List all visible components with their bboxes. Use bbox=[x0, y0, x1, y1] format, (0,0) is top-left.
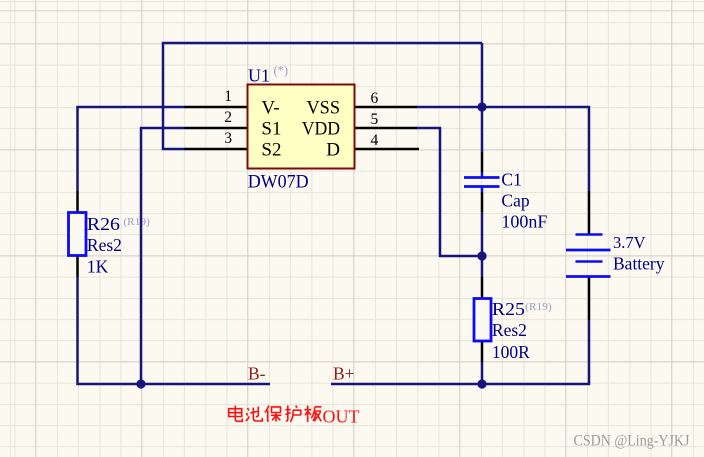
red title text OUT bbox=[323, 407, 360, 427]
svg-text:VDD: VDD bbox=[302, 119, 340, 140]
value label 3.7V bbox=[613, 233, 646, 252]
C1 bottom pin stub bbox=[481, 192, 484, 212]
value label Res2 of R26 bbox=[87, 235, 122, 255]
svg-text:1: 1 bbox=[224, 88, 232, 105]
chip pin name S2 bbox=[261, 140, 281, 161]
wire top rail net S2 bbox=[163, 43, 482, 149]
chip pin name D bbox=[326, 140, 340, 161]
node junction B- rail / S1 net bbox=[136, 379, 145, 388]
svg-text:5: 5 bbox=[371, 111, 379, 128]
battery BT1 symbol bbox=[566, 235, 611, 277]
svg-text:100nF: 100nF bbox=[501, 211, 547, 231]
capacitor C1 symbol bbox=[464, 172, 500, 192]
R25 bottom pin stub bbox=[481, 341, 484, 362]
red title hanzi 护 bbox=[285, 406, 301, 422]
svg-text:6: 6 bbox=[371, 90, 379, 107]
pin 5 stub bbox=[355, 127, 418, 130]
op-amp U1 chip body DW07D bbox=[248, 85, 355, 169]
svg-text:100R: 100R bbox=[492, 342, 530, 362]
value label Cap bbox=[501, 190, 529, 210]
pin 6 stub bbox=[355, 106, 418, 109]
designator U1 superscript (*) bbox=[274, 64, 289, 78]
battery bottom pin stub bbox=[588, 277, 591, 320]
value label 100R bbox=[492, 342, 530, 362]
wire pin6 VSS to battery top bbox=[417, 107, 589, 191]
svg-text:D: D bbox=[326, 140, 340, 161]
svg-text:(R19): (R19) bbox=[525, 301, 552, 313]
svg-text:4: 4 bbox=[371, 132, 379, 149]
svg-text:3.7V: 3.7V bbox=[613, 233, 646, 252]
node junction B+ rail / R25 bottom bbox=[477, 379, 486, 388]
wire pin1 V- net to R26 bbox=[78, 107, 185, 191]
wire pin2 S1 net vertical bbox=[141, 128, 184, 384]
svg-text:U1: U1 bbox=[248, 66, 270, 86]
svg-text:3: 3 bbox=[224, 130, 232, 147]
value label 1K bbox=[87, 256, 109, 276]
net label B+ bbox=[333, 364, 355, 384]
pin 4 stub bbox=[355, 148, 420, 151]
pin number 4 bbox=[371, 132, 379, 149]
chip pin name VDD bbox=[302, 119, 340, 140]
wire R26 bottom to B- rail bbox=[78, 277, 271, 385]
pin 2 stub bbox=[184, 127, 248, 130]
pin number 5 bbox=[371, 111, 379, 128]
net label B- bbox=[248, 364, 266, 384]
designator R26 bbox=[87, 214, 120, 234]
pin number 3 bbox=[224, 130, 232, 147]
red title hanzi 池 bbox=[246, 407, 262, 422]
chip pin name V- bbox=[261, 98, 279, 119]
svg-text:1K: 1K bbox=[87, 256, 109, 276]
svg-text:DW07D: DW07D bbox=[248, 172, 309, 193]
red title hanzi 电 bbox=[229, 406, 243, 422]
watermark CSDN @Ling-YJKJ bbox=[574, 433, 690, 450]
svg-text:S1: S1 bbox=[261, 119, 281, 140]
designator C1 bbox=[501, 169, 521, 189]
svg-text:(R19): (R19) bbox=[123, 216, 150, 228]
resistor R25 symbol bbox=[474, 299, 491, 342]
svg-text:2: 2 bbox=[224, 109, 232, 126]
pin number 1 bbox=[224, 88, 232, 105]
svg-text:(*): (*) bbox=[274, 64, 289, 78]
value label Res2 of R25 bbox=[492, 320, 527, 340]
chip pin name VSS bbox=[307, 98, 341, 119]
battery top pin stub bbox=[588, 191, 591, 234]
svg-text:Res2: Res2 bbox=[492, 320, 527, 340]
designator R26 superscript (R19) bbox=[123, 216, 150, 228]
red title hanzi 板 bbox=[305, 406, 322, 423]
pin 3 stub bbox=[184, 148, 248, 151]
wire B+ rail to battery bottom bbox=[331, 320, 589, 384]
R25 top pin stub bbox=[481, 277, 484, 299]
svg-text:VSS: VSS bbox=[307, 98, 341, 119]
wire pin5 VDD down to node bbox=[417, 128, 482, 256]
svg-text:C1: C1 bbox=[501, 169, 521, 189]
svg-text:Cap: Cap bbox=[501, 190, 529, 210]
svg-text:B+: B+ bbox=[333, 364, 355, 384]
designator R25 superscript (R19) bbox=[525, 301, 552, 313]
svg-text:R26: R26 bbox=[87, 214, 120, 234]
wire C1 bottom to R25 top bbox=[481, 212, 484, 277]
node junction VDD / C1 bottom / R25 top bbox=[477, 251, 486, 260]
red title hanzi 保 bbox=[265, 406, 281, 423]
R26 bottom pin stub bbox=[76, 255, 79, 277]
svg-text:CSDN @Ling-YJKJ: CSDN @Ling-YJKJ bbox=[574, 433, 690, 450]
wire C1 top net bbox=[481, 43, 484, 152]
C1 top pin stub bbox=[481, 152, 484, 172]
wire R25 bottom to B+ rail bbox=[481, 362, 484, 384]
svg-text:V-: V- bbox=[261, 98, 279, 119]
designator R25 bbox=[492, 299, 525, 319]
designator U1 bbox=[248, 66, 270, 86]
value label 100nF bbox=[501, 211, 547, 231]
chip pin name S1 bbox=[261, 119, 281, 140]
svg-text:Res2: Res2 bbox=[87, 235, 122, 255]
svg-text:Battery: Battery bbox=[613, 254, 665, 274]
value label Battery bbox=[613, 254, 665, 274]
svg-text:B-: B- bbox=[248, 364, 266, 384]
value label DW07D bbox=[248, 172, 309, 193]
svg-text:S2: S2 bbox=[261, 140, 281, 161]
resistor R26 symbol bbox=[69, 213, 87, 256]
R26 top pin stub bbox=[76, 191, 79, 213]
svg-text:R25: R25 bbox=[492, 299, 525, 319]
pin 1 stub bbox=[184, 106, 248, 109]
node junction pin6 / C1 top bbox=[477, 102, 486, 111]
pin number 2 bbox=[224, 109, 232, 126]
svg-text:OUT: OUT bbox=[323, 407, 360, 427]
pin number 6 bbox=[371, 90, 379, 107]
